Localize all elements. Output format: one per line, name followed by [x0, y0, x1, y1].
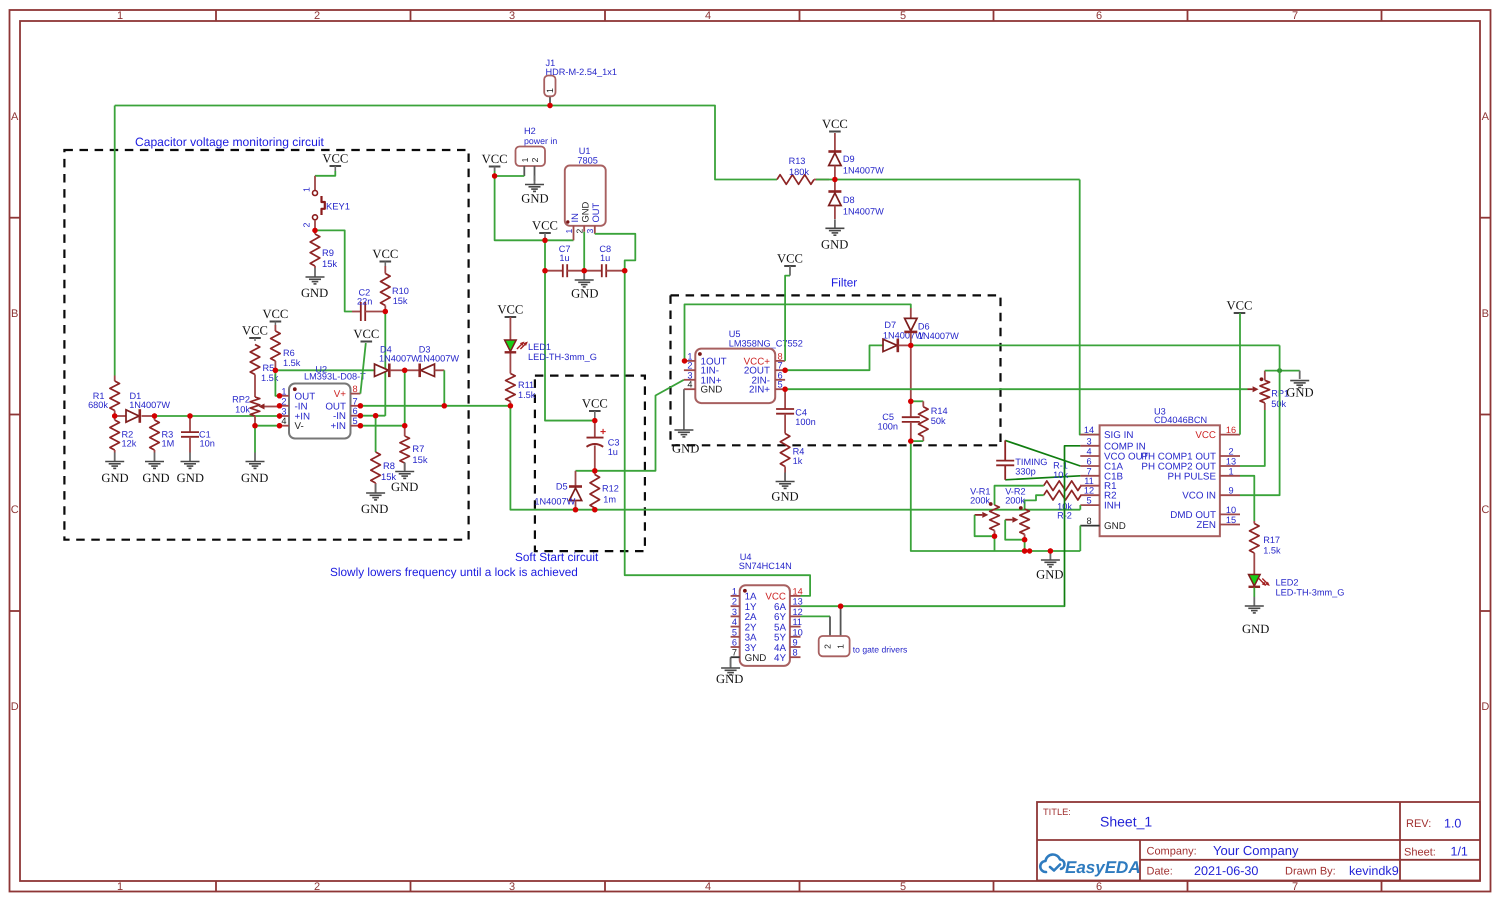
svg-text:7: 7 — [732, 648, 737, 658]
svg-text:B: B — [1482, 308, 1489, 320]
svg-text:13: 13 — [1226, 457, 1236, 467]
svg-text:6: 6 — [1096, 10, 1102, 22]
svg-text:A: A — [11, 111, 19, 123]
svg-text:VCC: VCC — [1227, 299, 1253, 313]
svg-text:100n: 100n — [795, 417, 815, 427]
svg-text:VCC: VCC — [482, 152, 508, 166]
svg-text:VCC: VCC — [372, 247, 398, 261]
svg-text:R9: R9 — [322, 247, 334, 258]
svg-text:5: 5 — [900, 881, 906, 893]
svg-text:VCC: VCC — [1195, 430, 1216, 441]
svg-text:R17: R17 — [1263, 535, 1280, 545]
svg-text:8: 8 — [793, 648, 798, 658]
svg-text:12k: 12k — [122, 439, 137, 449]
svg-text:2: 2 — [575, 229, 585, 234]
svg-text:R6: R6 — [283, 348, 295, 358]
svg-text:330p: 330p — [1015, 467, 1035, 477]
svg-text:1N4007W: 1N4007W — [843, 166, 884, 176]
svg-text:1.5k: 1.5k — [518, 390, 536, 400]
svg-text:C: C — [1481, 504, 1489, 516]
svg-text:R-1: R-1 — [1053, 460, 1068, 470]
svg-text:D5: D5 — [556, 482, 568, 492]
svg-text:GND: GND — [1242, 622, 1269, 636]
svg-text:VCC: VCC — [262, 307, 288, 321]
svg-text:10: 10 — [1226, 505, 1236, 515]
svg-text:Slowly lowers frequency until: Slowly lowers frequency until a lock is … — [330, 565, 578, 579]
svg-text:VCC: VCC — [242, 324, 268, 338]
svg-text:15: 15 — [1226, 515, 1236, 525]
svg-text:100n: 100n — [878, 422, 898, 432]
svg-text:15k: 15k — [412, 454, 427, 465]
svg-text:V+: V+ — [334, 389, 347, 400]
svg-text:12: 12 — [1084, 486, 1094, 496]
svg-text:1N4007W: 1N4007W — [534, 497, 575, 507]
svg-text:C5: C5 — [882, 412, 894, 422]
svg-text:2: 2 — [823, 644, 833, 649]
svg-text:to gate drivers: to gate drivers — [853, 645, 907, 655]
svg-text:LM393L-D08-T: LM393L-D08-T — [304, 372, 366, 382]
svg-text:VCC: VCC — [777, 252, 803, 266]
svg-text:+: + — [600, 426, 606, 438]
svg-text:3: 3 — [509, 881, 515, 893]
svg-text:INH: INH — [1104, 501, 1121, 512]
svg-text:D8: D8 — [843, 195, 855, 205]
svg-text:5: 5 — [900, 10, 906, 22]
svg-text:7: 7 — [1292, 881, 1298, 893]
svg-text:1u: 1u — [600, 253, 610, 263]
svg-text:D7: D7 — [884, 320, 896, 330]
svg-text:Date:: Date: — [1147, 866, 1173, 878]
svg-text:3: 3 — [281, 407, 286, 417]
svg-text:1.5k: 1.5k — [1263, 546, 1281, 556]
svg-text:1: 1 — [836, 644, 846, 649]
svg-text:kevindk9: kevindk9 — [1349, 864, 1399, 878]
svg-text:4: 4 — [732, 617, 737, 627]
svg-text:3: 3 — [732, 607, 737, 617]
svg-text:6: 6 — [732, 638, 737, 648]
svg-text:5: 5 — [353, 416, 358, 426]
svg-text:1M: 1M — [162, 439, 175, 449]
svg-text:VCC: VCC — [497, 303, 523, 317]
svg-text:OUT: OUT — [590, 202, 601, 222]
svg-text:R4: R4 — [793, 447, 805, 457]
svg-text:5: 5 — [778, 380, 783, 390]
svg-text:C4: C4 — [795, 408, 807, 418]
svg-text:IN: IN — [569, 213, 580, 222]
svg-text:4: 4 — [705, 881, 711, 893]
svg-text:GND: GND — [1036, 568, 1063, 582]
svg-text:LM358NG_C7552: LM358NG_C7552 — [729, 338, 803, 348]
svg-text:1: 1 — [545, 88, 555, 93]
svg-text:PH PULSE: PH PULSE — [1168, 471, 1217, 482]
svg-text:11: 11 — [793, 617, 803, 627]
svg-text:TITLE:: TITLE: — [1043, 807, 1071, 817]
svg-text:1N4007W: 1N4007W — [129, 400, 170, 410]
svg-text:1.5k: 1.5k — [283, 358, 301, 368]
svg-text:14: 14 — [793, 586, 803, 596]
svg-text:9: 9 — [793, 638, 798, 648]
svg-text:2: 2 — [314, 881, 320, 893]
svg-text:R10: R10 — [392, 286, 409, 296]
svg-text:4: 4 — [705, 10, 711, 22]
svg-text:9: 9 — [1228, 486, 1233, 496]
svg-text:10k: 10k — [235, 405, 250, 415]
svg-text:6: 6 — [1096, 881, 1102, 893]
svg-text:1: 1 — [117, 10, 123, 22]
svg-text:GND: GND — [672, 442, 699, 456]
svg-text:GND: GND — [142, 471, 169, 485]
svg-text:1: 1 — [732, 586, 737, 596]
svg-text:CD4046BCN: CD4046BCN — [1154, 415, 1207, 425]
svg-text:VCC: VCC — [582, 397, 608, 411]
svg-text:GND: GND — [701, 385, 723, 396]
svg-text:VCC: VCC — [353, 327, 379, 341]
svg-text:HDR-M-2.54_1x1: HDR-M-2.54_1x1 — [546, 67, 617, 77]
svg-text:5: 5 — [1086, 496, 1091, 506]
svg-text:200k: 200k — [970, 495, 990, 505]
svg-text:1m: 1m — [603, 495, 616, 505]
svg-text:R14: R14 — [931, 406, 948, 416]
svg-text:U1: U1 — [579, 146, 591, 156]
svg-text:VCC: VCC — [322, 152, 348, 166]
svg-text:10k: 10k — [1053, 470, 1068, 480]
svg-text:LED-TH-3mm_G: LED-TH-3mm_G — [528, 352, 597, 362]
svg-text:2: 2 — [1228, 447, 1233, 457]
svg-text:1: 1 — [117, 881, 123, 893]
svg-text:GND: GND — [301, 286, 328, 300]
svg-text:GND: GND — [361, 502, 388, 516]
svg-text:Your Company: Your Company — [1213, 843, 1299, 858]
svg-text:4: 4 — [1086, 447, 1091, 457]
svg-text:GND: GND — [745, 653, 767, 664]
svg-text:LED-TH-3mm_G: LED-TH-3mm_G — [1276, 588, 1345, 598]
svg-text:GND: GND — [1104, 521, 1126, 532]
svg-text:GND: GND — [571, 287, 598, 301]
svg-text:2: 2 — [732, 597, 737, 607]
svg-text:1u: 1u — [608, 447, 618, 457]
svg-text:3: 3 — [509, 10, 515, 22]
svg-text:GND: GND — [716, 672, 743, 686]
svg-text:Drawn By:: Drawn By: — [1285, 866, 1336, 878]
svg-text:1N4007W: 1N4007W — [843, 207, 884, 217]
svg-text:Capacitor voltage monitoring c: Capacitor voltage monitoring circuit — [135, 135, 325, 149]
svg-text:14: 14 — [1084, 425, 1094, 435]
svg-text:B: B — [11, 308, 18, 320]
svg-text:Filter: Filter — [831, 276, 857, 290]
svg-text:7: 7 — [1292, 10, 1298, 22]
svg-text:Sheet_1: Sheet_1 — [1100, 814, 1152, 830]
svg-text:12: 12 — [793, 607, 803, 617]
svg-text:SN74HC14N: SN74HC14N — [739, 561, 792, 571]
svg-text:4Y: 4Y — [774, 653, 786, 664]
svg-text:RP2: RP2 — [232, 395, 250, 405]
svg-text:1N4007W: 1N4007W — [379, 354, 420, 364]
svg-text:GND: GND — [771, 490, 798, 504]
svg-text:D: D — [11, 701, 19, 713]
svg-text:GND: GND — [580, 201, 591, 222]
svg-text:180k: 180k — [789, 167, 809, 177]
svg-text:22n: 22n — [357, 297, 372, 307]
svg-text:16: 16 — [1226, 425, 1236, 435]
svg-text:GND: GND — [391, 480, 418, 494]
svg-text:4: 4 — [687, 380, 692, 390]
svg-text:C: C — [11, 504, 19, 516]
svg-text:KEY1: KEY1 — [326, 201, 350, 212]
svg-text:1: 1 — [1228, 466, 1233, 476]
svg-text:2: 2 — [314, 10, 320, 22]
svg-text:GND: GND — [821, 238, 848, 252]
svg-text:7: 7 — [778, 361, 783, 371]
svg-text:LED1: LED1 — [528, 342, 551, 352]
svg-text:VCC: VCC — [822, 117, 848, 131]
svg-text:R8: R8 — [383, 460, 395, 471]
svg-text:7805: 7805 — [577, 156, 597, 166]
svg-text:R5: R5 — [263, 363, 275, 373]
svg-text:1N4007W: 1N4007W — [918, 331, 959, 341]
svg-text:1: 1 — [564, 229, 574, 234]
svg-text:R11: R11 — [518, 380, 534, 390]
svg-text:GND: GND — [177, 471, 204, 485]
svg-text:D9: D9 — [843, 154, 855, 164]
svg-text:15k: 15k — [393, 296, 408, 306]
svg-text:R12: R12 — [602, 484, 619, 494]
svg-text:A: A — [1482, 111, 1490, 123]
svg-text:10n: 10n — [200, 439, 215, 449]
svg-text:LED2: LED2 — [1276, 578, 1299, 588]
svg-text:2021-06-30: 2021-06-30 — [1194, 864, 1258, 878]
svg-text:V-: V- — [295, 421, 304, 432]
svg-text:GND: GND — [1286, 386, 1313, 400]
svg-text:D6: D6 — [918, 322, 930, 332]
svg-text:VCO IN: VCO IN — [1182, 491, 1216, 502]
svg-text:H2: H2 — [524, 126, 536, 136]
svg-text:GND: GND — [521, 192, 548, 206]
svg-text:1k: 1k — [793, 456, 803, 466]
svg-text:15k: 15k — [322, 258, 337, 269]
svg-text:2: 2 — [281, 396, 286, 406]
svg-text:GND: GND — [101, 471, 128, 485]
svg-text:680k: 680k — [88, 400, 108, 410]
svg-text:1: 1 — [281, 386, 286, 396]
svg-text:7: 7 — [353, 396, 358, 406]
svg-text:power in: power in — [524, 136, 557, 146]
svg-text:3: 3 — [585, 229, 595, 234]
svg-text:2: 2 — [530, 157, 540, 162]
svg-text:10: 10 — [793, 627, 803, 637]
svg-text:REV:: REV: — [1406, 818, 1431, 830]
svg-text:6: 6 — [1086, 457, 1091, 467]
svg-text:+IN: +IN — [330, 421, 346, 432]
svg-text:3: 3 — [1086, 436, 1091, 446]
svg-text:C3: C3 — [608, 437, 620, 447]
svg-text:SIG IN: SIG IN — [1104, 430, 1133, 441]
svg-text:50k: 50k — [931, 416, 946, 426]
svg-text:GND: GND — [241, 471, 268, 485]
svg-text:1: 1 — [302, 187, 312, 192]
svg-text:1u: 1u — [559, 253, 569, 263]
svg-text:D: D — [1481, 701, 1489, 713]
svg-text:8: 8 — [353, 384, 358, 394]
svg-text:EasyEDA: EasyEDA — [1065, 858, 1141, 877]
svg-text:7: 7 — [1086, 466, 1091, 476]
svg-text:2: 2 — [302, 222, 312, 227]
svg-text:2IN+: 2IN+ — [749, 385, 770, 396]
svg-text:2: 2 — [687, 361, 692, 371]
svg-text:4: 4 — [281, 416, 286, 426]
svg-text:6: 6 — [353, 406, 358, 416]
svg-text:R7: R7 — [412, 443, 424, 454]
svg-text:5: 5 — [732, 627, 737, 637]
svg-text:13: 13 — [793, 597, 803, 607]
svg-text:Soft Start circuit: Soft Start circuit — [515, 550, 599, 564]
svg-text:ZEN: ZEN — [1196, 520, 1216, 531]
svg-text:200k: 200k — [1005, 495, 1025, 505]
svg-text:1N4007W: 1N4007W — [418, 354, 459, 364]
svg-text:TIMING: TIMING — [1015, 457, 1047, 467]
svg-text:11: 11 — [1084, 476, 1094, 486]
svg-text:VCC: VCC — [532, 219, 558, 233]
svg-text:Company:: Company: — [1147, 846, 1197, 858]
svg-text:1: 1 — [520, 157, 530, 162]
svg-text:R13: R13 — [789, 156, 806, 166]
svg-text:1.0: 1.0 — [1444, 817, 1461, 831]
svg-text:Sheet:: Sheet: — [1404, 847, 1436, 859]
svg-text:8: 8 — [1086, 516, 1091, 526]
svg-text:1/1: 1/1 — [1451, 845, 1468, 859]
